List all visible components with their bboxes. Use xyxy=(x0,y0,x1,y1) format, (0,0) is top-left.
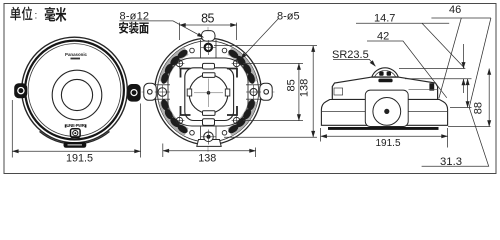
corner bracket SW xyxy=(181,106,191,115)
extra rim screw holes xyxy=(190,48,227,135)
corner bracket NE xyxy=(227,69,237,78)
left lug tab xyxy=(14,83,27,98)
front view outer circle xyxy=(22,37,128,143)
diagonal screw hole NW xyxy=(174,58,241,125)
right lug tab xyxy=(127,84,141,102)
dimension 85 (top) xyxy=(179,23,236,40)
dimension 138 (right vertical) xyxy=(214,46,317,138)
dimension 85 (right vertical) xyxy=(243,63,303,120)
model number text xyxy=(71,58,81,60)
north tab xyxy=(202,31,216,41)
svg-text:85: 85 xyxy=(201,11,214,25)
pillow web outline xyxy=(168,58,248,126)
base bottom dark strip xyxy=(328,127,439,130)
diagonal screw hole SE xyxy=(233,117,240,124)
dome screws xyxy=(379,71,383,75)
speaker inner circle xyxy=(61,79,92,110)
front view trim ring xyxy=(25,41,124,140)
north mount hole xyxy=(205,44,212,51)
dome base bar xyxy=(378,79,392,83)
side body outline xyxy=(332,77,437,99)
svg-text:▮UNE·PWR▮: ▮UNE·PWR▮ xyxy=(65,123,87,128)
front view inner rim circle xyxy=(28,44,121,137)
bottom lug tab xyxy=(64,142,87,148)
dimension 191.5 (front view) xyxy=(12,100,140,158)
south mount hole xyxy=(204,132,214,142)
body/base seam xyxy=(332,99,437,101)
front lug panel xyxy=(365,90,408,126)
center lines xyxy=(207,27,209,152)
center pivot xyxy=(207,91,211,95)
dome inner arc xyxy=(375,70,396,76)
boss top clip xyxy=(203,63,215,69)
svg-text:46: 46 xyxy=(449,4,461,16)
base front edge line xyxy=(321,111,447,113)
shading sectors with slots xyxy=(155,44,261,139)
svg-text:14.7: 14.7 xyxy=(374,13,395,25)
svg-text:8-ø5: 8-ø5 xyxy=(277,11,300,23)
diagonal screw hole SW xyxy=(176,117,183,124)
dimension 42 (vertical) xyxy=(450,79,472,108)
boss bottom clip xyxy=(203,119,215,126)
mounting slots (16) xyxy=(160,48,256,135)
svg-text:191.5: 191.5 xyxy=(66,152,93,164)
corner bracket NW xyxy=(181,69,191,78)
east tab xyxy=(260,83,273,100)
bottom bracket arc xyxy=(40,132,110,145)
svg-text:138: 138 xyxy=(299,79,311,97)
drawing frame border xyxy=(4,4,496,174)
dimension 14.7 (vertical, outside arrows) xyxy=(399,44,472,93)
svg-text::: : xyxy=(35,10,38,21)
dome cap xyxy=(372,68,399,77)
speaker opening circle xyxy=(52,70,102,120)
svg-text:138: 138 xyxy=(198,152,216,164)
base plate xyxy=(321,100,447,126)
east mount hole xyxy=(250,88,257,95)
right side slot xyxy=(429,83,434,90)
body seam line xyxy=(409,89,438,91)
svg-text:Panasonic: Panasonic xyxy=(65,52,88,57)
central boss rounded square xyxy=(185,68,234,121)
gimbal circle xyxy=(189,75,228,114)
front lug hole xyxy=(373,98,401,126)
svg-text:88: 88 xyxy=(473,102,485,114)
dimension 191.5 (side view) xyxy=(321,128,448,148)
svg-text:191.5: 191.5 xyxy=(375,138,400,149)
corner bracket SE xyxy=(227,106,237,115)
west mount hole xyxy=(158,88,167,97)
left face vent xyxy=(334,88,343,95)
diagonal screw hole NE xyxy=(233,60,240,67)
rear inner rim circle xyxy=(157,41,258,142)
indicator circle xyxy=(73,131,78,136)
dimension 138 (bottom) xyxy=(163,144,256,158)
south tab xyxy=(197,140,221,147)
rear outer circle xyxy=(155,38,262,145)
indicator square xyxy=(71,129,81,138)
west tab xyxy=(144,83,157,100)
svg-text:85: 85 xyxy=(285,79,297,91)
title: unit mm xyxy=(10,7,66,22)
tab channels xyxy=(156,40,260,143)
dimension 88 (vertical right) xyxy=(448,69,491,127)
